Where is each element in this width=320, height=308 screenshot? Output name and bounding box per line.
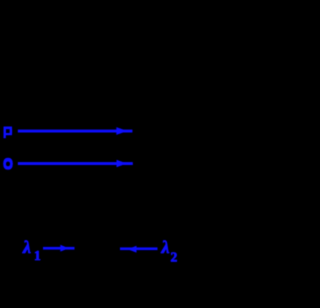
- label e (particle 2): [3, 158, 13, 170]
- arrow lambda_1 (short right arrow): [43, 245, 75, 252]
- arrowhead: [128, 246, 137, 253]
- svg-text:2: 2: [171, 250, 178, 265]
- svg-text:1: 1: [34, 248, 41, 263]
- arrow lambda_2 (short left arrow): [120, 246, 158, 253]
- arrowhead: [116, 127, 127, 135]
- label lambda_1: [22, 237, 41, 263]
- arrow e (long horizontal vector): [18, 160, 133, 168]
- arrowhead: [60, 245, 68, 252]
- arrowhead: [117, 160, 127, 168]
- wire: [120, 247, 158, 250]
- svg-text:λ: λ: [161, 237, 170, 257]
- svg-text:λ: λ: [22, 237, 31, 257]
- arrow p (long horizontal vector): [18, 127, 133, 135]
- wire: [18, 162, 133, 165]
- wire: [43, 247, 75, 250]
- label p (particle 1): [4, 127, 13, 139]
- wire: [18, 130, 133, 133]
- label lambda_2: [161, 237, 178, 265]
